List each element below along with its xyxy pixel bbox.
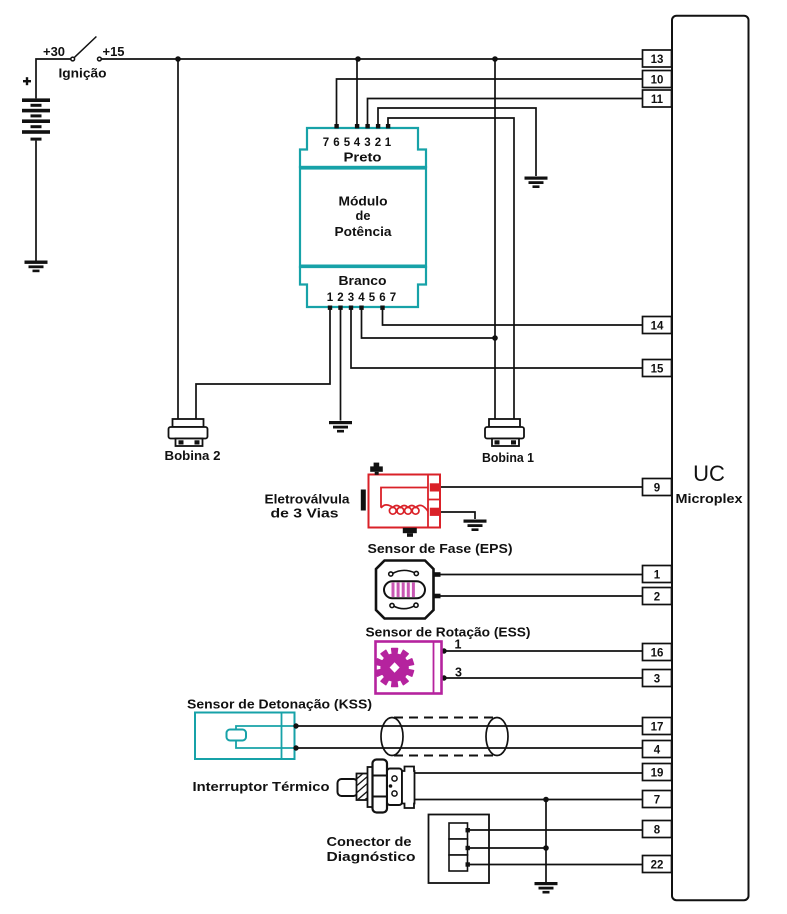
svg-text:Diagnóstico: Diagnóstico — [327, 849, 416, 864]
ignition coil Bobina 1 connector — [485, 419, 524, 446]
svg-text:13: 13 — [651, 54, 664, 66]
valve top port black tab — [370, 463, 383, 475]
svg-text:4: 4 — [354, 137, 361, 149]
junction node diag ground on pin7 wire — [543, 797, 549, 803]
solenoid valve Y1 Eletrovalvula body — [369, 475, 441, 528]
wire rail to Bobina 1 left pin — [494, 59, 496, 419]
phase sensor EPS body octagon — [376, 561, 434, 619]
svg-text:de 3 Vias: de 3 Vias — [271, 506, 339, 521]
EPS lower arc with end dots — [390, 603, 418, 609]
thermal switch hex body — [373, 760, 388, 813]
svg-text:Ignição: Ignição — [59, 66, 107, 81]
EPS rotor capsule — [384, 581, 425, 598]
battery G1 plus sign — [23, 77, 31, 85]
svg-text:8: 8 — [654, 825, 661, 837]
svg-text:11: 11 — [651, 94, 664, 106]
wire ESS upper to UC pin 16 — [442, 650, 642, 652]
wire ESS lower to UC pin 3 — [442, 677, 642, 679]
module bottom thick edge — [300, 265, 426, 269]
wire Preto pin6 to UC pin 10 — [337, 79, 643, 126]
svg-text:Bobina 2: Bobina 2 — [165, 448, 221, 463]
rotation sensor ESS body — [376, 642, 442, 694]
wire diag pin bottom to UC pin 22 — [467, 864, 642, 866]
pin labels Preto 7 6 5 4 3 2 1 — [323, 137, 392, 149]
diagnostic connector outline — [429, 815, 490, 884]
svg-text:10: 10 — [651, 75, 664, 87]
pin contact squares Branco bottom edge — [328, 306, 385, 310]
wire EPS lower to UC pin 2 — [434, 595, 642, 597]
KSS inner leads — [236, 726, 295, 748]
UC pin 8 — [643, 821, 672, 838]
UC pin 2 — [643, 588, 672, 605]
junction node on +15 rail x358 — [355, 56, 361, 62]
wire Branco pin6 to UC pin 14 — [383, 308, 643, 325]
diagnostic pin block 1 — [449, 823, 468, 839]
thermal switch pivot dot — [389, 784, 393, 788]
svg-text:6: 6 — [379, 292, 385, 304]
UC pin 15 — [643, 360, 672, 377]
junction node diag mid on ground drop — [543, 845, 549, 851]
wire valve lower terminal to ground — [440, 512, 475, 519]
valve left port black tab — [361, 490, 366, 511]
thermal switch end connector — [402, 767, 415, 809]
junction node Branco4 joins x495 — [492, 335, 498, 341]
UC pin 14 — [643, 317, 672, 334]
wire rail to Bobina 2 left pin — [177, 59, 179, 419]
svg-text:7: 7 — [390, 292, 396, 304]
module U2 Modulo de Potencia body — [300, 167, 426, 267]
svg-text:Interruptor Térmico: Interruptor Térmico — [193, 779, 330, 794]
svg-text:2: 2 — [337, 292, 343, 304]
valve bottom port black tab — [403, 528, 417, 537]
valve inner winding frame — [381, 488, 428, 508]
UC pin 13 — [643, 50, 672, 67]
ESS gear center hole — [390, 662, 400, 672]
svg-text:Conector de: Conector de — [327, 834, 412, 849]
svg-text:1: 1 — [327, 292, 334, 304]
svg-text:1: 1 — [455, 638, 462, 652]
KSS terminal dot lower — [293, 745, 298, 750]
svg-text:1: 1 — [385, 137, 392, 149]
wire EPS upper to UC pin 1 — [434, 574, 642, 576]
svg-text:7: 7 — [323, 137, 329, 149]
Bobina 2 terminal dots — [179, 440, 200, 444]
svg-text:2: 2 — [375, 137, 381, 149]
svg-text:Bobina 1: Bobina 1 — [482, 450, 534, 465]
svg-text:17: 17 — [651, 722, 664, 734]
shielded cable dashed top — [394, 717, 497, 719]
module top thick edge — [300, 166, 426, 170]
svg-text:3: 3 — [455, 666, 462, 680]
wire thermal switch upper to UC pin 19 — [414, 772, 642, 774]
shielded cable left ellipse — [381, 718, 403, 756]
svg-text:Microplex: Microplex — [676, 491, 744, 506]
KSS terminal dot upper — [293, 723, 298, 728]
UC pin 4 — [643, 741, 672, 758]
ESS terminal dot upper — [441, 648, 446, 653]
battery G1 plates — [22, 98, 50, 140]
svg-text:2: 2 — [654, 592, 660, 604]
thermal switch contact housing — [387, 769, 402, 806]
connector Preto body — [300, 128, 426, 167]
svg-text:6: 6 — [333, 137, 339, 149]
UC pin 7 — [643, 791, 672, 808]
wire Branco pin3 to UC pin 15 — [351, 308, 642, 368]
svg-text:Eletroválvula: Eletroválvula — [265, 492, 351, 507]
wire diag pin mid to ground node — [467, 847, 546, 849]
svg-text:4: 4 — [654, 745, 661, 757]
svg-text:14: 14 — [651, 321, 664, 333]
wire Branco pin1 to Bobina 2 right pin — [196, 308, 330, 419]
ground for valve — [464, 520, 487, 532]
svg-text:Sensor de Fase (EPS): Sensor de Fase (EPS) — [368, 541, 513, 556]
ground for Preto pin2 — [525, 177, 548, 189]
UC pin 11 — [643, 90, 672, 107]
valve connector contact upper — [430, 483, 440, 491]
svg-text:Branco: Branco — [339, 274, 387, 288]
KSS piezo element — [227, 730, 247, 741]
valve connector column — [428, 475, 440, 528]
svg-text:15: 15 — [651, 364, 664, 376]
thermal switch contact circle lower — [392, 791, 397, 796]
UC pin 19 — [643, 764, 672, 781]
wire Branco pin4 to node x495 — [362, 308, 496, 338]
wire Preto pin2 to ground — [378, 108, 536, 176]
svg-text:de: de — [356, 208, 371, 223]
UC pin 1 — [643, 566, 672, 583]
thermal switch threaded section — [357, 774, 369, 801]
wire KSS lower to UC pin 4 — [295, 747, 643, 749]
svg-text:3: 3 — [364, 137, 370, 149]
thermal switch thread hatching — [353, 771, 370, 803]
pin labels Branco 1 2 3 4 5 6 7 — [327, 292, 396, 304]
svg-text:3: 3 — [348, 292, 354, 304]
UC pin 9 — [643, 479, 672, 496]
svg-text:16: 16 — [651, 648, 664, 660]
wire valve upper terminal to UC pin 9 — [440, 486, 642, 488]
shielded cable dashed bottom — [394, 755, 497, 757]
switch S1 lever — [75, 37, 97, 58]
diagnostic pin dots — [466, 828, 470, 867]
svg-text:7: 7 — [654, 795, 660, 807]
ground for Branco pin2 — [329, 421, 352, 433]
ground under battery — [25, 261, 48, 273]
wire Preto pin4 to +15 rail — [356, 59, 358, 126]
wire battery top to switch — [36, 59, 71, 98]
wire diag pin top to UC pin 8 — [467, 829, 642, 831]
knock sensor KSS body — [195, 713, 295, 760]
svg-text:5: 5 — [344, 137, 351, 149]
diagnostic pin block 2 — [449, 839, 468, 855]
wire Preto pin1 to Bobina 1 right pin — [388, 118, 514, 419]
wire ground drop x546 — [545, 800, 547, 883]
ESS gear wheel — [376, 649, 414, 687]
UC pin 22 — [643, 856, 672, 873]
Bobina 1 terminal dots — [495, 440, 517, 444]
svg-text:3: 3 — [654, 674, 660, 686]
switch S1 Ignicao contact left — [71, 57, 75, 61]
thermal switch hex facet lines — [373, 776, 387, 797]
svg-text:4: 4 — [358, 292, 365, 304]
wire battery bottom to ground — [35, 141, 37, 261]
thermal switch collar — [368, 767, 374, 807]
valve coil L1 — [381, 505, 428, 514]
svg-text:1: 1 — [654, 570, 661, 582]
diagnostic pin block 3 — [449, 855, 468, 871]
junction node on +15 rail x495 — [492, 56, 498, 62]
junction node on +15 rail x178 — [175, 56, 181, 62]
EPS upper arc with end dots — [389, 570, 419, 576]
EPS rotor stripes — [392, 580, 415, 600]
connector Branco body — [300, 267, 426, 307]
thermal switch contact circle upper — [392, 776, 397, 781]
svg-text:22: 22 — [651, 860, 664, 872]
wire +15 main rail to UC pin 13 — [102, 58, 643, 60]
thermal switch tip — [338, 779, 358, 796]
EPS terminal stubs — [433, 572, 441, 598]
wire thermal switch lower to UC pin 7 — [414, 799, 642, 801]
UC pin 17 — [643, 718, 672, 735]
svg-text:19: 19 — [651, 768, 664, 780]
svg-text:+30: +30 — [43, 45, 65, 59]
UC Microplex body — [672, 16, 749, 901]
ignition coil Bobina 2 connector — [169, 419, 208, 446]
valve connector contact lower — [430, 508, 440, 516]
svg-text:5: 5 — [369, 292, 376, 304]
ground for diag drop — [535, 882, 558, 894]
UC pin 3 — [643, 670, 672, 687]
svg-text:Sensor de Rotação (ESS): Sensor de Rotação (ESS) — [366, 625, 531, 640]
svg-text:9: 9 — [654, 483, 660, 495]
svg-text:Potência: Potência — [335, 224, 393, 239]
pin contact squares Preto top edge — [334, 124, 390, 128]
UC pin 16 — [643, 644, 672, 661]
ESS terminal dot lower — [441, 675, 446, 680]
svg-text:Preto: Preto — [344, 151, 382, 165]
wire KSS upper to UC pin 17 — [295, 725, 643, 727]
wire Preto pin3 to UC pin 11 — [368, 99, 643, 127]
svg-text:UC: UC — [693, 461, 725, 486]
shielded cable right ellipse — [486, 718, 508, 756]
UC pin 10 — [643, 71, 672, 88]
svg-text:+15: +15 — [103, 45, 125, 59]
KSS connector divider — [281, 713, 283, 760]
wire Branco pin2 to ground — [340, 308, 342, 421]
switch S1 Ignicao contact right — [98, 57, 102, 61]
ESS connector divider — [433, 642, 435, 694]
svg-text:Módulo: Módulo — [339, 194, 388, 209]
svg-text:Sensor de Detonação (KSS): Sensor de Detonação (KSS) — [187, 697, 372, 712]
